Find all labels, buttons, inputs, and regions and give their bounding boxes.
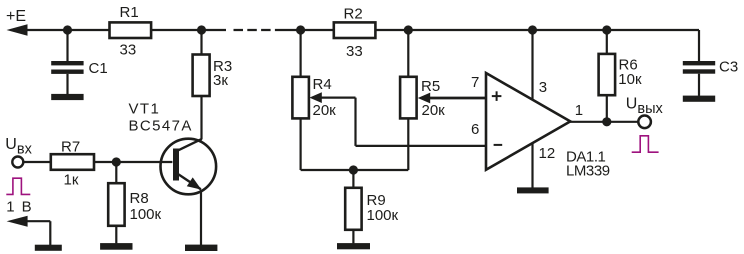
- wire R7 to base: [94, 161, 172, 163]
- terminal Uвх input circle: [12, 157, 23, 168]
- pin 12 wire: [531, 143, 533, 188]
- wire bottom link R4-R5: [301, 169, 409, 171]
- svg-text:100к: 100к: [367, 207, 399, 224]
- node R8 junction: [112, 157, 121, 166]
- wire emitter to ground: [200, 190, 202, 245]
- resistor R7: [51, 154, 94, 170]
- resistor R8: [108, 162, 124, 243]
- svg-text:+E: +E: [6, 8, 26, 25]
- transistor Q1 VT1 circle: [161, 139, 217, 195]
- ground under R9: [337, 243, 370, 249]
- transistor VT1 emitter lead: [179, 174, 201, 189]
- input common arrow: [7, 216, 28, 227]
- svg-text:1: 1: [575, 102, 583, 119]
- node C1 junction: [63, 25, 72, 34]
- wire output: [569, 121, 638, 123]
- svg-text:6: 6: [471, 121, 479, 138]
- transistor VT1 collector lead: [179, 139, 202, 150]
- output pulse waveform icon: [632, 136, 659, 152]
- pin 3 wire: [531, 30, 533, 101]
- resistor R6: [599, 30, 616, 122]
- svg-text:R2: R2: [344, 6, 363, 23]
- svg-text:20к: 20к: [422, 102, 446, 119]
- R4 wiper arrowhead: [309, 92, 321, 103]
- ground input common: [35, 245, 62, 251]
- capacitor C3: [683, 30, 715, 96]
- resistor R9: [345, 170, 361, 243]
- svg-text:В: В: [22, 198, 32, 215]
- svg-text:C1: C1: [89, 60, 108, 77]
- svg-text:3: 3: [539, 79, 547, 96]
- svg-text:R8: R8: [130, 190, 149, 207]
- svg-text:VT1: VT1: [129, 101, 161, 118]
- svg-text:BC547A: BC547A: [129, 117, 193, 134]
- wire +E rail left segment: [22, 29, 226, 31]
- node R4 junction: [296, 25, 305, 34]
- svg-text:R1: R1: [120, 4, 139, 21]
- op-amp U1 DA1.1 triangle: [486, 73, 570, 170]
- wire input to R7: [23, 161, 51, 163]
- svg-text:100к: 100к: [130, 206, 162, 223]
- svg-text:LM339: LM339: [566, 163, 610, 180]
- svg-text:Uвх: Uвх: [5, 136, 32, 158]
- svg-text:10к: 10к: [618, 71, 642, 88]
- wire R5 wiper to pin 7: [429, 97, 486, 100]
- wire +E rail right segment: [277, 29, 699, 31]
- svg-text:3к: 3к: [213, 72, 228, 89]
- resistor R2: [334, 22, 376, 38]
- ground under C3: [683, 96, 715, 102]
- svg-text:R7: R7: [61, 138, 80, 155]
- svg-text:R4: R4: [313, 76, 332, 93]
- node R3 junction: [197, 25, 206, 34]
- op-amp minus sign: [494, 144, 503, 146]
- wire input common: [24, 221, 50, 245]
- R5 wiper arrowhead: [418, 93, 430, 104]
- resistor R1: [110, 22, 152, 38]
- potentiometer R4: [292, 30, 309, 170]
- svg-text:C3: C3: [719, 59, 738, 76]
- ground under R8: [100, 243, 132, 250]
- svg-text:1к: 1к: [64, 171, 79, 188]
- capacitor C1: [51, 30, 83, 94]
- ground under C1: [51, 94, 83, 100]
- op-amp plus sign: [492, 91, 502, 101]
- ground under pin 12: [517, 187, 549, 193]
- node +E arrow: [7, 24, 28, 35]
- wire +E rail dashed break: [234, 29, 278, 31]
- potentiometer R5: [400, 30, 417, 170]
- input pulse waveform icon: [6, 178, 30, 194]
- svg-text:1: 1: [6, 198, 14, 215]
- transistor VT1 base bar: [173, 149, 179, 181]
- node pin3 junction: [528, 25, 537, 34]
- terminal Uвых output circle: [638, 116, 651, 129]
- svg-text:33: 33: [346, 43, 363, 60]
- svg-text:20к: 20к: [313, 102, 337, 119]
- resistor R3: [193, 30, 210, 139]
- svg-text:Uвых: Uвых: [626, 96, 664, 117]
- svg-text:12: 12: [539, 145, 556, 162]
- transistor VT1 emitter arrowhead: [187, 177, 202, 189]
- wire R4 wiper to pin 6: [320, 98, 486, 146]
- ground under VT1 emitter: [185, 245, 217, 251]
- svg-text:33: 33: [120, 42, 137, 59]
- node R6 rail junction: [602, 25, 611, 34]
- svg-text:R5: R5: [421, 78, 440, 95]
- node R5 junction: [404, 25, 413, 34]
- node output junction: [602, 117, 611, 126]
- node R9 junction: [349, 165, 358, 174]
- svg-text:7: 7: [471, 74, 479, 91]
